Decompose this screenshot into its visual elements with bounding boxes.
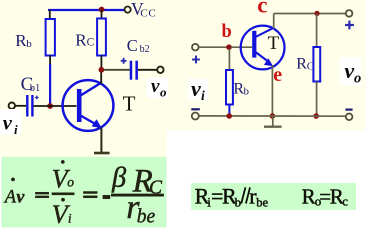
label vi (right) [191, 76, 205, 103]
terminal output + (right) [346, 10, 353, 17]
wire output lead [138, 69, 157, 71]
svg-text:v: v [151, 76, 160, 97]
transistor T (right) [241, 26, 285, 70]
label + at output [345, 21, 354, 30]
svg-text:R: R [296, 56, 307, 73]
svg-text:C: C [127, 36, 138, 55]
white label box vi [0, 109, 21, 135]
svg-text:b: b [244, 86, 250, 98]
dot over A [11, 178, 14, 181]
svg-text:c: c [257, 0, 267, 18]
numerator Vo dot [61, 160, 64, 163]
svg-text:A: A [3, 188, 17, 208]
svg-text:i: i [68, 212, 72, 226]
wire Rb top lead (right) [228, 49, 230, 70]
label Rc [75, 30, 94, 49]
label vo [151, 76, 167, 100]
svg-text:R: R [75, 30, 87, 49]
wire collector lead black [100, 70, 102, 84]
svg-text:o: o [354, 70, 361, 86]
label VCC [131, 0, 157, 20]
label vi [3, 113, 18, 138]
node emitter junction [270, 113, 276, 119]
wire Rc bottom lead [100, 56, 102, 71]
terminal bottom-right − (right circuit) [346, 114, 353, 121]
node Rc bottom junction [313, 113, 319, 119]
wire Rb top lead [49, 10, 51, 20]
formula Ro = Rc [302, 184, 349, 208]
svg-text:be: be [137, 207, 156, 228]
label − bottom-right [345, 108, 352, 110]
minus sign [103, 195, 110, 199]
wire input to node b [199, 46, 227, 48]
label Cb1 [21, 74, 41, 95]
terminal bottom-left − (right circuit) [192, 113, 199, 120]
svg-text:C: C [307, 61, 314, 73]
transistor T (left) [63, 80, 114, 131]
svg-text:T: T [268, 33, 280, 54]
ground (left circuit) [94, 152, 110, 155]
svg-text:b2: b2 [140, 44, 150, 55]
wire Rc top lead [101, 10, 103, 19]
node base junction [47, 103, 53, 109]
wire collector to Cb2 [104, 69, 130, 71]
terminal VCC [125, 7, 131, 13]
svg-text:v: v [191, 76, 201, 101]
node collector junction [99, 67, 105, 73]
label Rb (right) [233, 80, 249, 97]
svg-text:C: C [87, 37, 95, 49]
label − bottom-left [191, 108, 200, 110]
white label box vo (right) [340, 57, 362, 85]
node b [226, 44, 232, 50]
wire Rc bottom lead (right) [316, 82, 318, 117]
svg-text:R: R [302, 184, 316, 208]
ground (right circuit) [264, 116, 282, 127]
wire VCC top rail (left circuit) [48, 9, 125, 11]
svg-text:i: i [201, 88, 205, 103]
wire Rb bottom lead [49, 56, 51, 105]
svg-text:CC: CC [140, 8, 156, 20]
resistor Rb [46, 19, 55, 56]
wire base (right circuit) [231, 46, 252, 48]
node Rc top junction [314, 11, 319, 16]
svg-text:e: e [273, 64, 282, 86]
label + at input [192, 56, 200, 64]
wire emitter lead [100, 128, 102, 153]
formula Ri = Rb // rbe [195, 184, 269, 210]
svg-text:i: i [14, 122, 18, 137]
resistor Rc (right) [313, 47, 320, 82]
svg-text:v: v [344, 58, 354, 83]
svg-text:T: T [123, 92, 136, 116]
fraction bar 1 [52, 193, 74, 195]
capacitor Cb2 [130, 61, 138, 80]
svg-text:β: β [111, 162, 127, 193]
fraction bar 2 [111, 194, 163, 196]
wire input lead [15, 105, 26, 107]
terminal output vo (left) [157, 67, 163, 73]
polarity + of Cb2 [121, 58, 127, 64]
svg-text:b: b [222, 22, 232, 42]
denominator Vi dot [61, 198, 64, 201]
resistor Rc [97, 19, 106, 56]
node VCC junction [99, 7, 105, 13]
svg-text:c: c [342, 194, 348, 209]
white label box vo [147, 78, 168, 98]
capacitor Cb1 [26, 95, 34, 117]
svg-text:v: v [3, 113, 13, 135]
wire bottom rail (right) [199, 115, 346, 117]
formula box Av [2, 157, 167, 228]
formula Av = Vo/Vi = -beta RC/rbe [3, 160, 164, 229]
label Rc (right) [296, 56, 314, 73]
resistor Rb (right) [226, 70, 233, 105]
svg-text:b1: b1 [30, 83, 41, 94]
wire Rc top lead (right) [316, 14, 318, 48]
svg-text:o: o [160, 85, 167, 100]
terminal input + (right circuit) [192, 44, 199, 51]
svg-text:b: b [26, 38, 32, 50]
wire emitter lead (right) [271, 65, 273, 116]
label Rb [15, 31, 32, 50]
wire collector vertical (right) [273, 14, 275, 29]
svg-text:b: b [235, 194, 242, 209]
svg-text:be: be [256, 195, 268, 209]
label vo (right) [344, 58, 361, 86]
svg-text:v: v [16, 186, 25, 206]
wire Rb bottom lead (right) [228, 105, 230, 116]
wire top rail (right) [274, 13, 346, 15]
terminal input vi (left) [9, 103, 15, 109]
white label box vi (right) [188, 79, 209, 101]
node Rb bottom junction [226, 113, 232, 119]
formula box Ri Ro [191, 183, 356, 210]
svg-text:o: o [67, 175, 74, 190]
label Cb2 [127, 36, 150, 55]
polarity + of Cb1 [35, 96, 39, 100]
wire base (left circuit) [34, 105, 77, 107]
